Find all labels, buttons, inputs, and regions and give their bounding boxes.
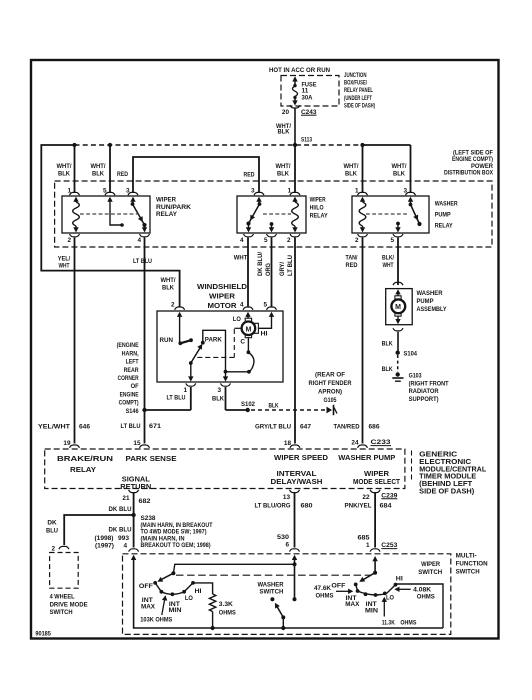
svg-text:15: 15	[133, 440, 141, 447]
svg-text:4: 4	[240, 302, 244, 309]
svg-text:BLK: BLK	[278, 129, 290, 136]
svg-text:WHT: WHT	[59, 263, 70, 270]
svg-text:OFF: OFF	[139, 583, 153, 590]
svg-text:MIN: MIN	[365, 608, 378, 615]
svg-text:680: 680	[301, 502, 313, 509]
svg-text:LO: LO	[386, 594, 394, 601]
svg-text:3: 3	[251, 188, 255, 195]
svg-text:LT BLU: LT BLU	[133, 258, 152, 265]
svg-text:2: 2	[287, 237, 291, 244]
svg-text:2: 2	[51, 545, 55, 552]
svg-text:MAX: MAX	[345, 601, 360, 608]
svg-text:PARK SENSE: PARK SENSE	[126, 454, 177, 463]
svg-text:(1997): (1997)	[95, 542, 114, 549]
svg-text:YEL/: YEL/	[58, 255, 71, 262]
svg-text:M: M	[395, 304, 401, 311]
svg-text:BOX/FUSE/: BOX/FUSE/	[344, 80, 367, 87]
svg-text:WHT: WHT	[234, 255, 248, 262]
svg-text:2: 2	[171, 302, 175, 309]
svg-text:684: 684	[380, 502, 392, 509]
svg-text:MIN: MIN	[169, 607, 182, 614]
svg-text:DK: DK	[47, 520, 57, 527]
svg-text:993: 993	[118, 535, 129, 542]
svg-text:5: 5	[390, 237, 394, 244]
svg-text:DRIVE MODE: DRIVE MODE	[50, 601, 89, 608]
svg-text:RED: RED	[244, 172, 255, 179]
svg-text:C: C	[240, 338, 245, 345]
svg-text:BLK: BLK	[212, 396, 224, 403]
svg-text:BLK: BLK	[382, 366, 393, 373]
svg-text:LT BLU: LT BLU	[121, 423, 141, 430]
svg-text:REAR: REAR	[124, 367, 139, 374]
svg-text:SWITCH: SWITCH	[418, 569, 442, 576]
svg-text:WHT/: WHT/	[161, 277, 176, 284]
svg-text:BREAKOUT TO GEM; 1998): BREAKOUT TO GEM; 1998)	[141, 542, 211, 549]
svg-text:S104: S104	[404, 351, 418, 358]
svg-text:4 WHEEL: 4 WHEEL	[50, 594, 75, 601]
svg-text:LEFT: LEFT	[126, 359, 139, 366]
svg-text:3: 3	[126, 188, 130, 195]
svg-text:4: 4	[137, 237, 141, 244]
svg-text:PARK: PARK	[205, 337, 222, 344]
svg-text:5: 5	[263, 302, 267, 309]
svg-text:671: 671	[149, 423, 161, 430]
svg-text:DELAY/WASH: DELAY/WASH	[271, 477, 323, 486]
svg-text:1: 1	[183, 387, 187, 394]
svg-text:ENGINE: ENGINE	[120, 391, 140, 398]
svg-text:11.3K: 11.3K	[382, 620, 395, 627]
svg-text:M: M	[245, 326, 251, 333]
svg-text:22: 22	[362, 494, 370, 501]
svg-text:RIGHT FENDER: RIGHT FENDER	[309, 380, 352, 387]
svg-text:BLK: BLK	[269, 403, 279, 410]
svg-text:DK BLU/: DK BLU/	[257, 252, 264, 276]
svg-text:530: 530	[277, 534, 289, 541]
svg-text:WASHER: WASHER	[417, 290, 443, 297]
svg-text:647: 647	[300, 423, 311, 430]
svg-text:3: 3	[403, 188, 407, 195]
svg-text:(UNDER LEFT: (UNDER LEFT	[344, 95, 372, 102]
svg-text:13: 13	[283, 494, 291, 501]
svg-text:LO: LO	[185, 595, 193, 602]
svg-text:685: 685	[358, 535, 370, 542]
svg-text:DK BLU: DK BLU	[109, 506, 132, 513]
svg-text:WHT/: WHT/	[276, 163, 291, 170]
svg-text:TAN/RED: TAN/RED	[334, 423, 360, 430]
svg-text:SWITCH: SWITCH	[456, 568, 480, 575]
svg-text:682: 682	[139, 498, 151, 505]
svg-text:DK BLU: DK BLU	[109, 526, 132, 533]
svg-text:TAN/: TAN/	[346, 255, 358, 262]
svg-text:ASSEMBLY: ASSEMBLY	[417, 306, 448, 313]
svg-text:1: 1	[287, 188, 291, 195]
svg-text:30A: 30A	[302, 94, 313, 101]
svg-text:PUMP: PUMP	[417, 298, 435, 305]
svg-text:OHMS: OHMS	[316, 593, 335, 600]
svg-text:WASHER PUMP: WASHER PUMP	[338, 453, 395, 462]
svg-text:RUN: RUN	[160, 337, 174, 344]
svg-text:RUN/PARK: RUN/PARK	[156, 204, 191, 211]
svg-text:WINDSHIELD: WINDSHIELD	[197, 282, 247, 291]
svg-text:HI/LO: HI/LO	[310, 205, 324, 212]
svg-text:4: 4	[123, 542, 127, 549]
svg-text:BLK: BLK	[92, 171, 104, 178]
svg-text:OF: OF	[131, 383, 139, 390]
svg-text:HI: HI	[396, 576, 403, 583]
svg-text:JUNCTION: JUNCTION	[344, 72, 367, 79]
svg-text:S102: S102	[241, 401, 255, 408]
svg-text:HI: HI	[195, 588, 202, 595]
svg-text:WHT/: WHT/	[392, 163, 407, 170]
svg-text:HARN,: HARN,	[122, 350, 139, 357]
svg-text:G105: G105	[324, 397, 337, 404]
svg-text:OFF: OFF	[331, 582, 345, 589]
svg-text:RETURN: RETURN	[120, 482, 151, 491]
svg-text:YEL/WHT: YEL/WHT	[38, 423, 70, 430]
svg-text:WIPER SPEED: WIPER SPEED	[274, 453, 328, 462]
svg-text:HI: HI	[261, 330, 268, 337]
svg-text:LO: LO	[233, 316, 241, 323]
svg-text:S146: S146	[126, 408, 139, 415]
svg-text:RELAY: RELAY	[156, 211, 178, 218]
svg-text:WHT: WHT	[383, 262, 394, 269]
svg-text:SWITCH: SWITCH	[50, 609, 73, 616]
svg-text:LT BLU: LT BLU	[287, 255, 294, 276]
svg-text:BLK: BLK	[393, 171, 405, 178]
svg-text:6: 6	[285, 542, 289, 549]
svg-text:WHT/: WHT/	[344, 163, 359, 170]
svg-text:3.3K: 3.3K	[219, 601, 233, 608]
svg-text:APRON): APRON)	[318, 389, 342, 396]
svg-text:BRAKE/RUN: BRAKE/RUN	[57, 454, 113, 463]
svg-text:646: 646	[79, 423, 90, 430]
svg-text:RELAY PANEL: RELAY PANEL	[344, 87, 373, 94]
svg-text:103K OHMS: 103K OHMS	[140, 617, 173, 624]
svg-text:WIPER: WIPER	[421, 561, 440, 568]
svg-text:47.6K: 47.6K	[314, 585, 331, 592]
svg-text:90185: 90185	[35, 631, 51, 638]
svg-text:WIPER: WIPER	[156, 196, 176, 203]
svg-text:BLK: BLK	[162, 284, 174, 291]
svg-text:S113: S113	[301, 137, 312, 144]
svg-text:SIDE OF DASH): SIDE OF DASH)	[344, 103, 375, 110]
svg-text:1: 1	[67, 188, 71, 195]
svg-text:(REAR OF: (REAR OF	[315, 372, 345, 379]
svg-text:BLK: BLK	[58, 171, 70, 178]
svg-text:2: 2	[355, 237, 359, 244]
svg-text:RED: RED	[346, 262, 358, 269]
svg-text:3: 3	[217, 387, 221, 394]
svg-text:FUNCTION: FUNCTION	[456, 560, 488, 567]
svg-text:5: 5	[264, 237, 268, 244]
svg-text:20: 20	[282, 109, 290, 116]
svg-text:HOT IN ACC OR RUN: HOT IN ACC OR RUN	[269, 67, 330, 74]
svg-text:4.08K: 4.08K	[413, 586, 431, 593]
svg-text:1: 1	[355, 188, 359, 195]
svg-text:WIPER: WIPER	[209, 292, 236, 301]
svg-text:GRY/: GRY/	[279, 262, 286, 276]
svg-text:RELAY: RELAY	[310, 212, 329, 219]
svg-text:RELAY: RELAY	[435, 223, 454, 230]
svg-text:PUMP: PUMP	[435, 212, 452, 219]
svg-text:BLK: BLK	[345, 171, 357, 178]
svg-text:BLU: BLU	[46, 528, 58, 535]
svg-text:SWITCH: SWITCH	[259, 589, 283, 596]
svg-text:PNK/YEL: PNK/YEL	[345, 502, 372, 509]
svg-text:18: 18	[284, 440, 292, 447]
svg-text:(1998): (1998)	[95, 535, 114, 542]
svg-text:GRY/LT BLU: GRY/LT BLU	[255, 423, 291, 430]
svg-text:LT BLU: LT BLU	[167, 395, 186, 402]
svg-text:MOTOR: MOTOR	[208, 301, 238, 310]
svg-text:OHMS: OHMS	[400, 620, 417, 627]
svg-text:BLK/: BLK/	[382, 255, 394, 262]
svg-text:(ENGINE: (ENGINE	[117, 342, 140, 349]
svg-text:19: 19	[63, 440, 71, 447]
svg-text:MAX: MAX	[141, 604, 156, 611]
svg-text:WHT/: WHT/	[57, 163, 72, 170]
svg-text:RED: RED	[117, 171, 128, 178]
svg-text:OHMS: OHMS	[219, 609, 237, 616]
svg-text:BLK: BLK	[382, 341, 393, 348]
svg-text:21: 21	[122, 495, 130, 502]
svg-text:WASHER: WASHER	[435, 201, 458, 208]
svg-text:S238: S238	[141, 515, 156, 522]
svg-text:DISTRIBUTION BOX: DISTRIBUTION BOX	[444, 169, 494, 176]
svg-text:24: 24	[351, 440, 359, 447]
svg-text:ORG: ORG	[265, 263, 272, 276]
svg-text:RADIATOR: RADIATOR	[409, 388, 439, 395]
svg-text:WIPER: WIPER	[310, 197, 326, 204]
svg-text:MODE SELECT: MODE SELECT	[353, 477, 401, 486]
svg-text:1: 1	[366, 542, 370, 549]
svg-text:MULTI-: MULTI-	[456, 552, 477, 559]
svg-text:SIDE OF DASH): SIDE OF DASH)	[419, 486, 475, 495]
svg-text:COMPT): COMPT)	[119, 400, 139, 407]
svg-text:G103: G103	[409, 372, 422, 379]
svg-text:SUPPORT): SUPPORT)	[409, 396, 439, 403]
svg-text:WHT/: WHT/	[91, 163, 106, 170]
svg-text:OHMS: OHMS	[417, 593, 436, 600]
svg-text:WASHER: WASHER	[258, 582, 284, 589]
svg-text:686: 686	[369, 423, 380, 430]
svg-text:5: 5	[103, 188, 107, 195]
svg-text:CORNER: CORNER	[118, 375, 139, 382]
svg-text:(RIGHT FRONT: (RIGHT FRONT	[409, 381, 449, 388]
svg-text:4: 4	[240, 237, 244, 244]
svg-text:LT BLU/ORG: LT BLU/ORG	[255, 502, 291, 509]
svg-text:RELAY: RELAY	[70, 465, 96, 474]
svg-text:BLK: BLK	[277, 171, 289, 178]
svg-text:2: 2	[67, 237, 71, 244]
